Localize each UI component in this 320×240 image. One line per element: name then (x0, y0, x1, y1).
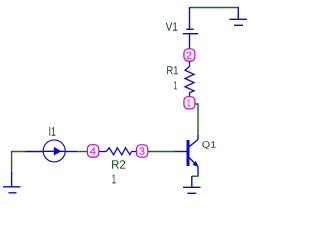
node 3 (136, 145, 147, 157)
wire (190, 7, 239, 9)
node 2 digit (186, 52, 191, 59)
node 4 digit (90, 148, 96, 155)
node 3 digit (140, 147, 145, 154)
resistor R1 (185, 61, 194, 97)
node 1 (184, 97, 195, 109)
node 2 (184, 49, 195, 61)
wire (192, 175, 199, 177)
label Q1 (202, 141, 215, 149)
label V1 (166, 23, 178, 31)
ground (230, 7, 248, 25)
label I1 (49, 127, 55, 136)
voltage source V1 (183, 7, 198, 49)
value 1 (R2) (112, 175, 115, 184)
wire (195, 104, 198, 136)
label R1 (167, 66, 178, 74)
current source I1 (26, 140, 78, 162)
label R2 (112, 160, 125, 168)
node 4 (87, 145, 98, 157)
wire (148, 151, 175, 153)
wire (77, 151, 88, 153)
transistor Q1 (175, 135, 198, 176)
node 1 digit (187, 99, 190, 106)
resistor R2 (99, 148, 136, 155)
wire (12, 152, 26, 173)
value 1 (R1) (174, 81, 177, 89)
ground (3, 172, 21, 193)
ground (183, 176, 201, 193)
